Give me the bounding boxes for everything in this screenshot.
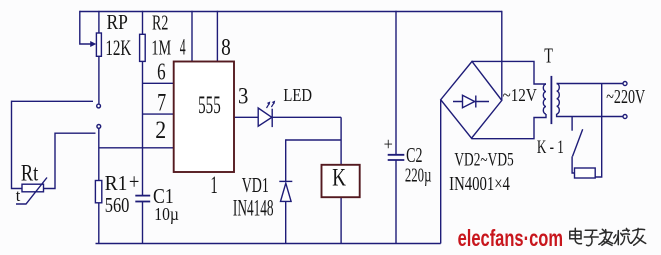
svg-text:R1: R1: [105, 172, 128, 195]
svg-text:10µ: 10µ: [154, 204, 179, 224]
svg-text:t: t: [16, 186, 21, 205]
svg-text:560: 560: [105, 194, 130, 217]
svg-text:IN4148: IN4148: [233, 196, 274, 222]
svg-text:Rt: Rt: [21, 161, 39, 186]
svg-text:4: 4: [180, 34, 186, 59]
svg-text:+: +: [384, 134, 393, 154]
svg-text:~220V: ~220V: [606, 86, 646, 108]
svg-text:elecfans·com: elecfans·com: [458, 226, 563, 251]
svg-text:+: +: [129, 170, 139, 194]
svg-text:~12V: ~12V: [503, 85, 537, 105]
svg-text:R2: R2: [152, 11, 168, 35]
svg-text:LED: LED: [283, 85, 312, 106]
svg-text:RP: RP: [106, 11, 127, 34]
svg-text:2: 2: [155, 117, 166, 145]
svg-text:220µ: 220µ: [405, 163, 432, 186]
svg-text:12K: 12K: [105, 36, 131, 60]
svg-text:T: T: [544, 44, 553, 67]
svg-text:7: 7: [157, 89, 166, 116]
svg-text:555: 555: [198, 92, 221, 119]
svg-text:VD1: VD1: [242, 173, 269, 197]
svg-text:1M: 1M: [151, 36, 171, 59]
svg-text:VD2~VD5: VD2~VD5: [454, 148, 513, 170]
svg-text:K - 1: K - 1: [537, 136, 564, 158]
svg-text:8: 8: [221, 34, 231, 60]
svg-text:6: 6: [157, 59, 166, 86]
svg-text:IN4001×4: IN4001×4: [449, 172, 510, 195]
svg-text:3: 3: [238, 83, 248, 109]
svg-text:K: K: [332, 163, 346, 191]
svg-text:1: 1: [210, 172, 217, 199]
